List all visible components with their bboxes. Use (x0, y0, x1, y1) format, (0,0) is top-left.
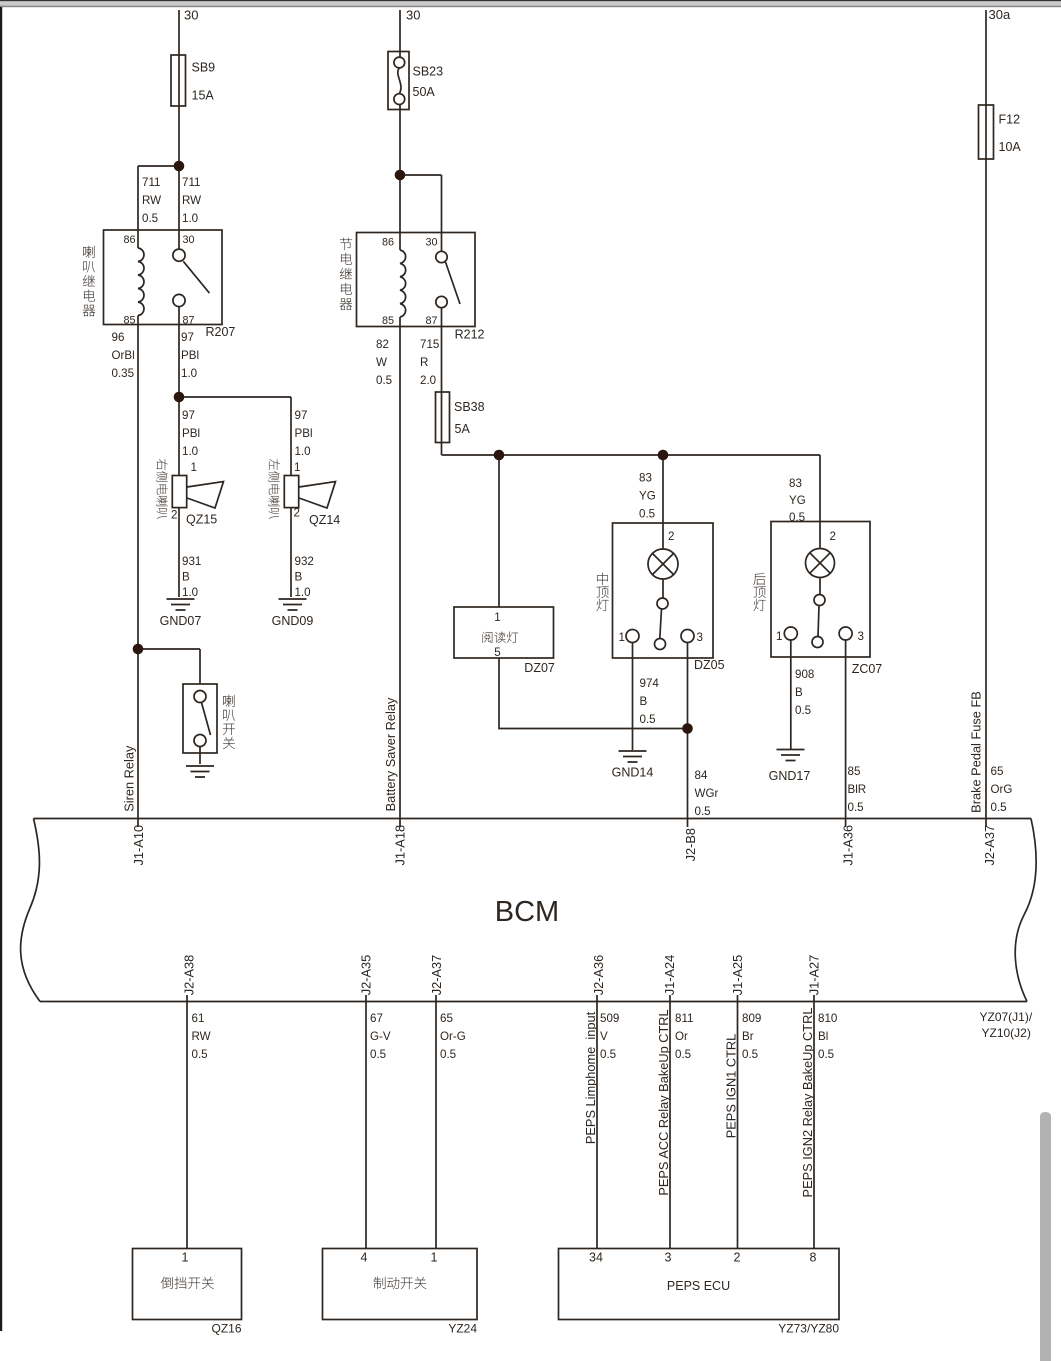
svg-text:B: B (795, 686, 803, 699)
svg-text:2: 2 (294, 507, 300, 520)
svg-text:1: 1 (619, 631, 625, 644)
svg-text:DZ05: DZ05 (694, 658, 725, 672)
svg-text:RW: RW (182, 194, 201, 207)
svg-text:82: 82 (376, 338, 389, 351)
svg-text:50A: 50A (413, 85, 436, 99)
svg-text:2: 2 (734, 1251, 741, 1265)
svg-text:0.5: 0.5 (192, 1048, 208, 1061)
svg-text:1.0: 1.0 (182, 586, 198, 599)
svg-text:85: 85 (848, 765, 861, 778)
svg-text:J2-A37: J2-A37 (429, 955, 444, 996)
svg-text:Bl: Bl (818, 1030, 828, 1043)
svg-text:WGr: WGr (695, 787, 719, 800)
svg-text:0.5: 0.5 (640, 713, 656, 726)
svg-text:PBl: PBl (182, 427, 200, 440)
svg-text:2: 2 (830, 530, 836, 543)
svg-text:30: 30 (406, 8, 420, 23)
svg-text:65: 65 (440, 1012, 453, 1025)
svg-text:0.5: 0.5 (142, 212, 158, 225)
svg-text:711: 711 (142, 176, 160, 189)
svg-text:30a: 30a (989, 7, 1011, 22)
svg-text:34: 34 (589, 1251, 603, 1265)
svg-text:J1-A10: J1-A10 (131, 825, 146, 866)
svg-text:ZC07: ZC07 (852, 662, 883, 676)
svg-text:PEPS ECU: PEPS ECU (667, 1279, 730, 1293)
svg-text:RW: RW (192, 1030, 211, 1043)
svg-text:1: 1 (294, 461, 300, 474)
svg-text:YG: YG (789, 494, 806, 507)
svg-text:R212: R212 (455, 328, 485, 342)
svg-text:Br: Br (742, 1030, 754, 1043)
svg-text:1: 1 (191, 461, 197, 474)
svg-text:YZ10(J2): YZ10(J2) (982, 1026, 1031, 1040)
svg-text:BlR: BlR (848, 783, 867, 796)
svg-text:0.5: 0.5 (789, 511, 805, 524)
svg-text:YZ24: YZ24 (448, 1322, 477, 1336)
svg-text:J1-A24: J1-A24 (662, 955, 677, 996)
svg-text:3: 3 (665, 1251, 672, 1265)
svg-text:SB9: SB9 (192, 61, 216, 75)
svg-text:J1-A18: J1-A18 (393, 825, 408, 866)
svg-text:97: 97 (295, 409, 308, 422)
svg-text:J2-B8: J2-B8 (683, 828, 698, 861)
svg-text:Or-G: Or-G (440, 1030, 466, 1043)
svg-text:0.5: 0.5 (675, 1048, 691, 1061)
svg-text:0.5: 0.5 (370, 1048, 386, 1061)
svg-text:811: 811 (675, 1012, 693, 1025)
svg-text:84: 84 (695, 769, 708, 782)
svg-text:PBl: PBl (181, 349, 199, 362)
svg-text:1: 1 (182, 1251, 189, 1265)
svg-text:J2-A35: J2-A35 (359, 955, 374, 996)
svg-text:RW: RW (142, 194, 161, 207)
svg-text:V: V (600, 1030, 608, 1043)
svg-text:OrBl: OrBl (112, 349, 135, 362)
svg-text:J1-A25: J1-A25 (730, 955, 745, 996)
svg-text:PEPS IGN2 Relay BakeUp CTRL: PEPS IGN2 Relay BakeUp CTRL (800, 1008, 815, 1198)
svg-text:OrG: OrG (991, 783, 1013, 796)
svg-text:Battery Saver Relay: Battery Saver Relay (383, 697, 398, 811)
svg-text:Or: Or (675, 1030, 688, 1043)
svg-text:B: B (182, 571, 190, 584)
svg-text:2.0: 2.0 (420, 374, 436, 387)
svg-text:PBl: PBl (295, 427, 313, 440)
svg-text:974: 974 (640, 677, 660, 690)
svg-text:1.0: 1.0 (182, 445, 198, 458)
svg-text:J1-A36: J1-A36 (841, 825, 856, 866)
svg-text:30: 30 (184, 8, 198, 23)
svg-text:30: 30 (425, 237, 437, 249)
svg-text:0.5: 0.5 (376, 374, 392, 387)
svg-text:0.5: 0.5 (991, 801, 1007, 814)
svg-text:QZ15: QZ15 (186, 513, 217, 527)
svg-text:YZ73/YZ80: YZ73/YZ80 (778, 1322, 839, 1336)
svg-text:97: 97 (181, 331, 194, 344)
svg-text:1.0: 1.0 (181, 367, 197, 380)
svg-text:GND17: GND17 (769, 769, 811, 783)
svg-text:B: B (640, 695, 648, 708)
svg-text:83: 83 (789, 477, 802, 490)
svg-text:J2-A38: J2-A38 (182, 955, 197, 996)
svg-text:908: 908 (795, 668, 814, 681)
svg-text:87: 87 (425, 315, 437, 327)
svg-text:YG: YG (639, 490, 656, 503)
svg-text:0.5: 0.5 (848, 801, 864, 814)
svg-text:PEPS ACC Relay BakeUp CTRL: PEPS ACC Relay BakeUp CTRL (656, 1009, 671, 1195)
svg-text:R: R (420, 356, 428, 369)
svg-text:Siren Relay: Siren Relay (122, 745, 137, 812)
svg-text:B: B (295, 571, 303, 584)
svg-text:61: 61 (192, 1012, 205, 1025)
svg-text:SB38: SB38 (454, 400, 485, 414)
svg-text:86: 86 (382, 237, 394, 249)
svg-text:QZ14: QZ14 (309, 513, 340, 527)
svg-text:85: 85 (123, 315, 135, 327)
svg-text:1: 1 (431, 1251, 438, 1265)
svg-text:2: 2 (171, 509, 177, 522)
svg-text:1.0: 1.0 (295, 586, 311, 599)
svg-text:YZ07(J1)/: YZ07(J1)/ (980, 1010, 1033, 1024)
svg-text:PEPS Limphome_input: PEPS Limphome_input (583, 1011, 598, 1144)
svg-text:3: 3 (858, 630, 864, 643)
svg-text:0.35: 0.35 (112, 367, 135, 380)
svg-text:W: W (376, 356, 387, 369)
svg-text:J1-A27: J1-A27 (807, 955, 822, 996)
svg-text:15A: 15A (192, 89, 215, 103)
svg-text:810: 810 (818, 1012, 837, 1025)
svg-text:5: 5 (494, 646, 500, 659)
svg-text:65: 65 (991, 765, 1004, 778)
svg-text:0.5: 0.5 (639, 508, 655, 521)
svg-text:85: 85 (382, 315, 394, 327)
svg-text:509: 509 (600, 1012, 619, 1025)
svg-text:3: 3 (697, 631, 703, 644)
svg-text:4: 4 (361, 1251, 368, 1265)
svg-text:1: 1 (776, 630, 782, 643)
svg-text:0.5: 0.5 (742, 1048, 758, 1061)
svg-text:QZ16: QZ16 (211, 1322, 241, 1336)
svg-text:67: 67 (370, 1012, 383, 1025)
svg-text:86: 86 (123, 234, 135, 246)
svg-text:715: 715 (420, 338, 439, 351)
svg-text:GND07: GND07 (160, 614, 202, 628)
svg-text:0.5: 0.5 (440, 1048, 456, 1061)
svg-text:711: 711 (182, 176, 200, 189)
svg-text:30: 30 (183, 234, 195, 246)
svg-text:R207: R207 (206, 325, 236, 339)
svg-text:GND14: GND14 (612, 766, 654, 780)
svg-text:5A: 5A (455, 422, 471, 436)
svg-text:0.5: 0.5 (600, 1048, 616, 1061)
svg-text:83: 83 (639, 472, 652, 485)
svg-text:809: 809 (742, 1012, 761, 1025)
svg-text:0.5: 0.5 (818, 1048, 834, 1061)
svg-text:1.0: 1.0 (295, 445, 311, 458)
svg-text:J2-A36: J2-A36 (591, 955, 606, 996)
svg-text:F12: F12 (999, 113, 1021, 127)
svg-text:SB23: SB23 (413, 65, 444, 79)
svg-text:J2-A37: J2-A37 (982, 825, 997, 866)
svg-text:10A: 10A (999, 140, 1022, 154)
svg-text:DZ07: DZ07 (524, 661, 555, 675)
svg-text:0.5: 0.5 (795, 704, 811, 717)
svg-text:Brake Pedal Fuse FB: Brake Pedal Fuse FB (969, 691, 984, 813)
svg-text:8: 8 (810, 1251, 817, 1265)
svg-text:GND09: GND09 (272, 614, 314, 628)
svg-text:1.0: 1.0 (182, 212, 198, 225)
svg-text:931: 931 (182, 555, 201, 568)
svg-text:G-V: G-V (370, 1030, 391, 1043)
svg-text:87: 87 (183, 315, 195, 327)
svg-text:932: 932 (295, 555, 314, 568)
svg-text:96: 96 (112, 331, 125, 344)
svg-text:PEPS IGN1 CTRL: PEPS IGN1 CTRL (724, 1034, 739, 1139)
svg-text:0.5: 0.5 (695, 805, 711, 818)
svg-text:97: 97 (182, 409, 195, 422)
svg-text:BCM: BCM (495, 896, 559, 928)
svg-text:2: 2 (668, 530, 674, 543)
svg-text:1: 1 (494, 611, 500, 624)
